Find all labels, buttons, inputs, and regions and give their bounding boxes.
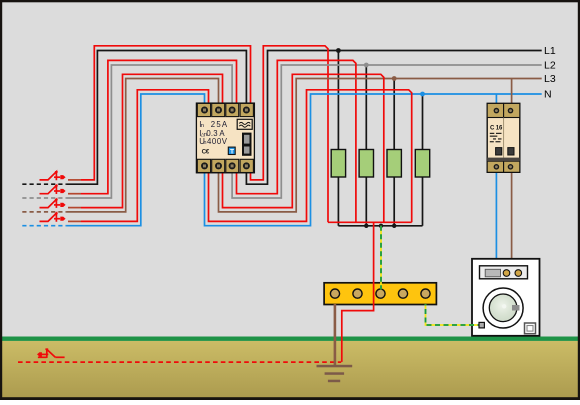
svg-text:L2: L2 — [544, 60, 556, 72]
svg-text:C 16: C 16 — [490, 125, 503, 131]
svg-text:L3: L3 — [544, 73, 556, 85]
svg-text:400V: 400V — [207, 137, 228, 146]
svg-text:L1: L1 — [544, 45, 556, 57]
svg-text:C€: C€ — [202, 148, 210, 155]
svg-text:25A: 25A — [211, 120, 228, 129]
svg-text:n: n — [201, 123, 204, 129]
svg-text:N: N — [544, 89, 552, 101]
svg-text:T: T — [230, 148, 234, 155]
